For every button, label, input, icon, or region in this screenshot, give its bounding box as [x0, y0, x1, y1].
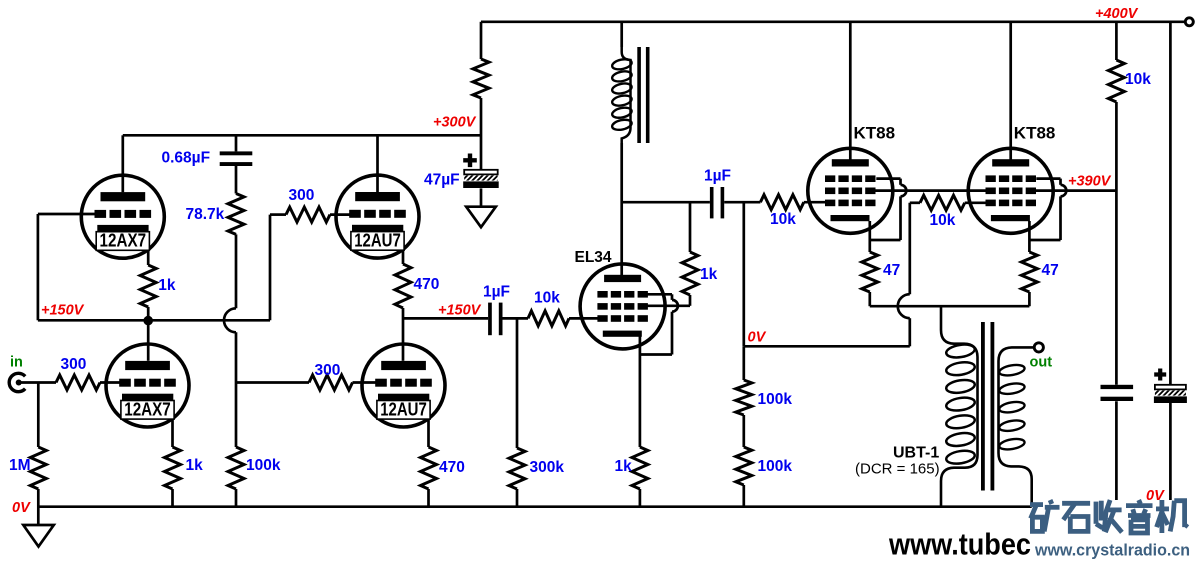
- svg-text:12AX7: 12AX7: [124, 400, 171, 420]
- svg-text:www.tubec: www.tubec: [888, 527, 1031, 562]
- svg-text:in: in: [10, 355, 23, 371]
- svg-text:out: out: [1030, 355, 1053, 371]
- svg-text:KT88: KT88: [854, 124, 896, 143]
- svg-text:+400V: +400V: [1095, 6, 1139, 22]
- svg-text:EL34: EL34: [575, 249, 612, 266]
- svg-text:1µF: 1µF: [704, 168, 731, 185]
- svg-text:300k: 300k: [530, 459, 565, 476]
- svg-text:47: 47: [1042, 262, 1059, 279]
- svg-text:47: 47: [883, 262, 900, 279]
- svg-text:100k: 100k: [758, 458, 793, 475]
- svg-text:300: 300: [61, 356, 87, 373]
- svg-text:+150V: +150V: [438, 303, 482, 319]
- svg-text:1k: 1k: [186, 457, 204, 474]
- svg-text:+150V: +150V: [41, 303, 85, 319]
- svg-text:www.crystalradio.cn: www.crystalradio.cn: [1034, 541, 1190, 560]
- svg-text:UBT-1: UBT-1: [893, 445, 939, 462]
- svg-text:1k: 1k: [158, 277, 176, 294]
- svg-text:1µF: 1µF: [483, 284, 510, 301]
- svg-text:KT88: KT88: [1014, 124, 1056, 143]
- svg-text:0.68µF: 0.68µF: [162, 150, 211, 167]
- svg-text:100k: 100k: [758, 391, 793, 408]
- svg-text:10k: 10k: [930, 212, 956, 229]
- svg-text:12AU7: 12AU7: [354, 231, 401, 251]
- svg-text:12AX7: 12AX7: [100, 231, 147, 251]
- svg-text:0V: 0V: [12, 500, 31, 516]
- svg-text:1M: 1M: [9, 457, 31, 474]
- svg-text:100k: 100k: [246, 457, 281, 474]
- svg-text:78.7k: 78.7k: [186, 206, 225, 223]
- svg-text:10k: 10k: [534, 290, 560, 307]
- svg-text:(DCR = 165): (DCR = 165): [855, 461, 940, 478]
- svg-text:1k: 1k: [700, 266, 718, 283]
- svg-text:0V: 0V: [748, 330, 767, 346]
- svg-text:470: 470: [439, 459, 465, 476]
- svg-text:10k: 10k: [1125, 71, 1151, 88]
- svg-text:47µF: 47µF: [424, 172, 460, 189]
- svg-text:1k: 1k: [615, 458, 633, 475]
- svg-text:300: 300: [289, 187, 315, 204]
- svg-text:470: 470: [414, 276, 440, 293]
- svg-text:10k: 10k: [770, 211, 796, 228]
- svg-text:12AU7: 12AU7: [380, 400, 427, 420]
- svg-text:300: 300: [315, 362, 341, 379]
- svg-text:+390V: +390V: [1068, 174, 1112, 190]
- svg-text:+300V: +300V: [433, 115, 477, 131]
